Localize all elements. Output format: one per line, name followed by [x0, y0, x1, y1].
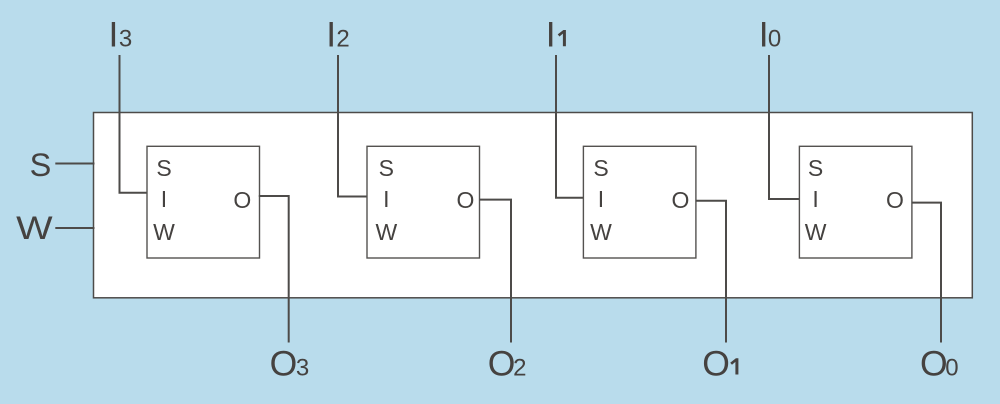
svg-text:I: I: [326, 15, 336, 55]
label I2: [326, 15, 350, 55]
svg-text:I: I: [109, 15, 119, 55]
svg-text:3: 3: [119, 26, 132, 53]
svg-text:S: S: [808, 155, 823, 181]
svg-text:W: W: [16, 210, 53, 246]
svg-text:0: 0: [768, 26, 781, 53]
mux block outline: [94, 113, 973, 298]
svg-text:S: S: [30, 147, 52, 183]
label O1: [702, 344, 738, 384]
svg-text:0: 0: [945, 355, 958, 382]
svg-text:I: I: [161, 186, 167, 212]
svg-text:O: O: [886, 187, 904, 213]
wire output O0: [912, 203, 941, 343]
svg-text:3: 3: [296, 355, 309, 382]
svg-text:O: O: [702, 344, 730, 384]
svg-text:O: O: [457, 187, 475, 213]
wire input I2: [338, 55, 368, 197]
svg-text:O: O: [671, 187, 689, 213]
svg-text:S: S: [156, 155, 171, 181]
svg-text:I: I: [598, 186, 604, 212]
label I0: [759, 15, 782, 55]
wire input I0: [769, 55, 800, 199]
svg-text:I: I: [383, 186, 389, 212]
svg-text:W: W: [153, 219, 175, 245]
svg-text:O: O: [920, 344, 948, 384]
svg-text:2: 2: [336, 26, 349, 53]
svg-text:2: 2: [513, 355, 526, 382]
svg-text:S: S: [379, 155, 394, 181]
memory cell bit 2: [367, 146, 480, 258]
label I1: [546, 15, 566, 55]
svg-text:W: W: [805, 219, 827, 245]
wire S stub: [55, 163, 94, 165]
label O0: [920, 344, 959, 384]
memory cell bit 3: [147, 146, 260, 258]
label O2: [488, 344, 527, 384]
wire output O1: [696, 201, 726, 343]
svg-text:O: O: [233, 187, 251, 213]
svg-text:I: I: [812, 186, 818, 212]
svg-text:S: S: [593, 155, 608, 181]
svg-text:O: O: [488, 344, 516, 384]
svg-text:W: W: [375, 219, 397, 245]
wire input I1: [556, 55, 584, 198]
wire output O2: [479, 200, 511, 343]
label I3: [109, 15, 133, 55]
svg-text:O: O: [270, 344, 298, 384]
memory cell bit 1: [583, 146, 696, 258]
svg-text:W: W: [590, 219, 612, 245]
memory cell bit 0: [799, 146, 912, 258]
wire W stub: [55, 227, 94, 229]
label O3: [270, 344, 310, 384]
wire input I3: [120, 55, 148, 193]
wire output O3: [259, 196, 289, 343]
svg-text:I: I: [546, 15, 556, 55]
